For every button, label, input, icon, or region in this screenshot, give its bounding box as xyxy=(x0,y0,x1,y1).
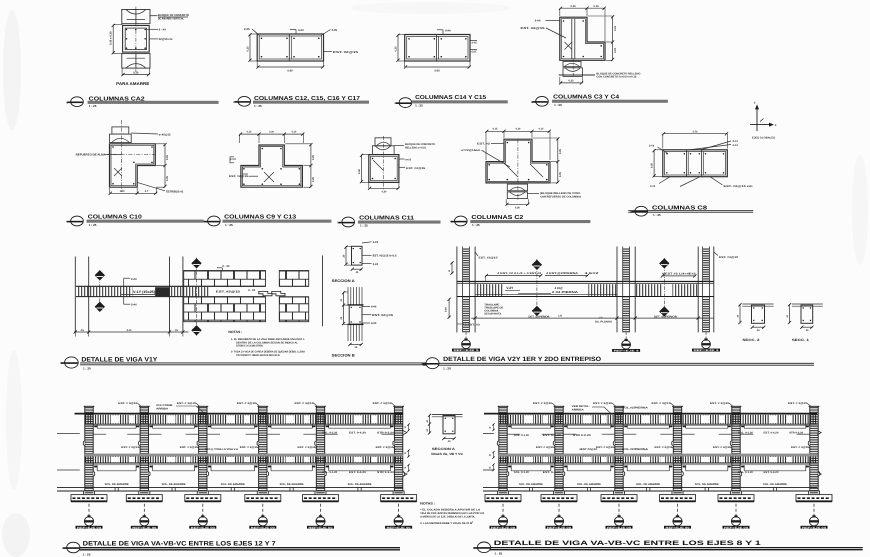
leader 4-#4 top-middle (C12) xyxy=(290,28,304,34)
title COLUMNAS C12 C15 C16 Y C17 xyxy=(234,96,370,108)
svg-text:1 : 25: 1 : 25 xyxy=(495,551,503,555)
svg-text:1.00: 1.00 xyxy=(120,190,125,193)
viga V2Y - left small dimension xyxy=(448,261,454,275)
right frame - stirrup labels above top beam xyxy=(533,402,811,407)
svg-text:PARA AMARRE: PARA AMARRE xyxy=(116,81,149,86)
column C10 L-shaped section xyxy=(105,120,155,192)
svg-text:SOL. DE AMARRE: SOL. DE AMARRE xyxy=(280,483,304,486)
svg-text:STR 9-2.20: STR 9-2.20 xyxy=(573,434,592,437)
svg-text:1 : 25: 1 : 25 xyxy=(254,104,262,108)
right frame - top beam level 1 with stirrups xyxy=(484,414,817,426)
svg-text:SECCION A: SECCION A xyxy=(432,447,456,451)
svg-text:V-2Y: V-2Y xyxy=(506,286,514,290)
svg-text:4 #4@: 4 #4@ xyxy=(555,286,563,290)
leader 2-#5 top-left (C12) xyxy=(244,27,260,36)
svg-text:1 : 25: 1 : 25 xyxy=(89,104,97,108)
svg-text:#2@15 cm: #2@15 cm xyxy=(159,37,173,41)
svg-text:4.10: 4.10 xyxy=(127,329,132,332)
title DETALLE DE VIGA V1Y with scale stamp xyxy=(60,356,437,370)
viga V2Y - column 3 xyxy=(698,247,714,333)
viga V1Y - bottom dimension line xyxy=(74,329,189,337)
svg-text:0.30: 0.30 xyxy=(382,190,387,193)
svg-text:N: N xyxy=(395,102,397,105)
svg-text:0.7: 0.7 xyxy=(145,190,149,193)
block courses below C2 xyxy=(507,184,527,198)
svg-text:REF=EJE 00: REF=EJE 00 xyxy=(387,526,412,529)
svg-text:R: R xyxy=(405,426,407,429)
svg-text:4-#4: 4-#4 xyxy=(733,140,739,143)
svg-text:ARRIBA: ARRIBA xyxy=(156,408,168,411)
leader estribo right (C12) xyxy=(324,50,359,54)
svg-text:REFUERZO DE ALMA: REFUERZO DE ALMA xyxy=(76,154,106,157)
svg-text:e=#2: e=#2 xyxy=(230,158,236,161)
column section detail CA2 - block courses above xyxy=(122,10,150,24)
svg-text:EST.: EST. xyxy=(472,51,478,54)
svg-text:SOL. DE AMARRE: SOL. DE AMARRE xyxy=(348,483,372,486)
svg-text:0.15: 0.15 xyxy=(247,131,252,134)
svg-text:R: R xyxy=(489,426,491,429)
svg-text:EST. #2@15: EST. #2@15 xyxy=(333,50,359,54)
svg-text:EST. # 3@10: EST. # 3@10 xyxy=(533,402,553,405)
svg-text:EST. # 3@15: EST. # 3@15 xyxy=(180,446,199,449)
svg-text:EST. # 3@15: EST. # 3@15 xyxy=(655,446,674,449)
svg-text:0.30: 0.30 xyxy=(133,71,139,74)
svg-text:0.15: 0.15 xyxy=(539,128,544,131)
left frame - stirrup labels above top beam xyxy=(118,402,395,407)
title COLUMNAS C11 xyxy=(337,215,440,227)
leader 4-#4 top (C14) xyxy=(437,28,451,34)
svg-text:R: R xyxy=(489,467,491,470)
svg-text:2-#4: 2-#4 xyxy=(373,241,379,244)
leader note bloque (C3) xyxy=(559,73,641,79)
viga V1Y - bracket leader 2-#4 top and bottom xyxy=(124,277,137,306)
svg-text:1 : 25: 1 : 25 xyxy=(83,552,91,556)
viga V2Y - section diamonds span 2 xyxy=(654,258,677,318)
svg-text:e=#2: e=#2 xyxy=(405,158,411,161)
svg-text:SOL. 9-1.20: SOL. 9-1.20 xyxy=(322,431,338,434)
svg-text:0.60: 0.60 xyxy=(287,69,293,72)
svg-text:0.25: 0.25 xyxy=(166,155,169,160)
viga V1Y - beam label xyxy=(121,290,155,294)
left dimension (C8) xyxy=(650,149,662,178)
svg-text:N: N xyxy=(531,101,533,104)
svg-text:SOL. DE AMARRE: SOL. DE AMARRE xyxy=(221,483,245,486)
svg-text:COLUMNAS C11: COLUMNAS C11 xyxy=(359,215,414,221)
viga V2Y - span dimension line xyxy=(471,315,714,324)
top dimension (C8) xyxy=(662,130,728,148)
svg-text:EST. # 3@15: EST. # 3@15 xyxy=(121,446,140,449)
right frame - column reference bubbles xyxy=(490,504,828,530)
svg-text:STR 9-2.20: STR 9-2.20 xyxy=(377,471,395,474)
svg-text:REF=EJE 00: REF=EJE 00 xyxy=(77,526,102,529)
svg-text:SOL. 9-1.20: SOL. 9-1.20 xyxy=(514,471,530,474)
svg-text:0.30: 0.30 xyxy=(515,206,520,209)
svg-text:N: N xyxy=(422,363,424,366)
block course below C3 xyxy=(563,59,582,78)
svg-text:e=#2@15: e=#2@15 xyxy=(159,133,171,136)
bottom leaders (C8) xyxy=(650,177,754,189)
svg-text:1 : 25: 1 : 25 xyxy=(225,223,233,227)
left dimension (C11) xyxy=(358,154,369,183)
right frame - labels between levels xyxy=(536,446,811,450)
svg-text:e=#2@15cm: e=#2@15cm xyxy=(461,149,481,152)
dimension left of C14 xyxy=(394,34,404,62)
column section detail C8 - wide rectangle three cells xyxy=(663,150,728,177)
svg-text:CON REFUERZO DE COLUMNA): CON REFUERZO DE COLUMNA) xyxy=(540,195,581,198)
svg-text:2-#4: 2-#4 xyxy=(649,144,655,147)
title COLUMNAS C10 xyxy=(66,214,203,226)
svg-text:EST. #3@10: EST. #3@10 xyxy=(719,256,739,259)
svg-text:4-#4: 4-#4 xyxy=(535,19,541,23)
left frame - middle beam level 2 with slab line xyxy=(85,454,403,465)
svg-text:N: N xyxy=(450,221,452,224)
svg-text:DETALLE DE VIGA VA-VB-VC ENTRE: DETALLE DE VIGA VA-VB-VC ENTRE LOS EJES … xyxy=(83,540,277,547)
svg-text:4 EST. #2 A L/4 + 4 EST.#2: 4 EST. #2 A L/4 + 4 EST.#2 xyxy=(497,272,542,275)
svg-text:NOTAS :: NOTAS : xyxy=(420,502,435,506)
svg-text:DETALLE DE VIGA VA-VB-VC ENTRE: DETALLE DE VIGA VA-VB-VC ENTRE LOS EJES … xyxy=(494,540,762,547)
svg-text:STR 9-2.20: STR 9-2.20 xyxy=(789,431,804,434)
svg-text:EST. # 3@10: EST. # 3@10 xyxy=(652,402,672,405)
viga V2Y - column 2 xyxy=(617,247,635,333)
bottom dimension (C2) xyxy=(505,199,529,209)
svg-text:4 E#2: 4 E#2 xyxy=(585,272,600,275)
svg-text:EST. #2@15: EST. #2@15 xyxy=(406,167,426,170)
svg-text:4 - #4: 4 - #4 xyxy=(159,28,167,32)
left frame - broken-edge marks xyxy=(57,431,407,477)
svg-text:EJES GLOBALES: EJES GLOBALES xyxy=(752,137,775,140)
svg-text:4-#4: 4-#4 xyxy=(298,28,304,32)
svg-text:EST. 9-4.20: EST. 9-4.20 xyxy=(349,471,367,474)
svg-text:4-#4: 4-#4 xyxy=(371,322,377,325)
svg-text:V-1Y (15x25): V-1Y (15x25) xyxy=(133,290,155,294)
right dimension (C3) xyxy=(588,15,617,61)
svg-text:0.20: 0.20 xyxy=(614,47,617,53)
svg-text:SOL. DE AMARRE: SOL. DE AMARRE xyxy=(162,483,186,486)
svg-text:EST. #2@15: EST. #2@15 xyxy=(216,290,241,294)
viga V1Y - second column xyxy=(170,257,183,333)
svg-text:NOTAS :: NOTAS : xyxy=(228,330,242,334)
title COLUMNAS C14 Y C15 xyxy=(395,95,508,107)
svg-text:0.25: 0.25 xyxy=(559,149,562,154)
svg-text:0.30: 0.30 xyxy=(516,128,521,131)
svg-text:0.70: 0.70 xyxy=(693,130,698,133)
dimension line below CA2 xyxy=(121,69,150,77)
right frame - bar cutoff lines below level 1 xyxy=(507,425,810,435)
title COLUMNAS C9 Y C13 xyxy=(203,214,331,226)
svg-text:0.25: 0.25 xyxy=(312,177,315,182)
svg-text:N: N xyxy=(66,221,68,224)
viga V2Y - column 1 top leader xyxy=(475,252,498,259)
left leaders (C3) xyxy=(521,19,567,38)
svg-text:SOL. 9-1.20: SOL. 9-1.20 xyxy=(514,434,530,437)
svg-text:EST. #2@15 A=0.5: EST. #2@15 A=0.5 xyxy=(373,254,398,257)
svg-text:1 : 25: 1 : 25 xyxy=(89,223,97,227)
svg-text:REF=EJE 00: REF=EJE 00 xyxy=(607,526,632,529)
svg-text:SOL. 9-1.20: SOL. 9-1.20 xyxy=(738,471,754,474)
bottom dimension (C10) xyxy=(109,188,158,195)
viga V1Y - section mark diamonds at wall xyxy=(192,258,201,337)
svg-text:A MENOS DE LO EJE. DEBAJO DE L: A MENOS DE LO EJE. DEBAJO DE LA JUNTA. xyxy=(420,516,475,519)
svg-text:0.25: 0.25 xyxy=(570,5,576,8)
svg-text:CON CONCRETO Y VIBRADA SEGUN S: CON CONCRETO Y VIBRADA SEGUN SE INDICA E… xyxy=(236,354,280,357)
svg-text:0.25: 0.25 xyxy=(650,163,653,168)
svg-text:1 : 25: 1 : 25 xyxy=(653,213,661,217)
svg-text:2: 2 xyxy=(472,520,473,523)
title DETALLE DE VIGA VA-VB-VC ENTRE LOS EJES 8 Y 1 xyxy=(473,540,863,555)
svg-text:REF=EJE 00: REF=EJE 00 xyxy=(191,526,216,529)
left frame - footings xyxy=(71,491,417,501)
svg-text:EST. # 3@15: EST. # 3@15 xyxy=(376,446,395,449)
svg-text:SOL. DE AMARRE: SOL. DE AMARRE xyxy=(105,483,129,486)
svg-text:N: N xyxy=(473,547,475,550)
svg-text:2-#4: 2-#4 xyxy=(131,277,137,281)
svg-text:0.30 x 0.30: 0.30 x 0.30 xyxy=(110,31,113,45)
svg-text:SECC. 2: SECC. 2 xyxy=(742,338,759,342)
beam section A - vigas VA VB VC xyxy=(426,414,464,456)
left frame - bar cutoff lines below level 1 xyxy=(93,425,394,435)
viga V2Y - column reference bubbles xyxy=(452,332,720,352)
right frame - left edge depth marks xyxy=(489,423,495,471)
bottom dimension (C3) xyxy=(559,77,583,85)
svg-text:1 : 20: 1 : 20 xyxy=(83,367,91,371)
svg-text:ESTRIBOS #2: ESTRIBOS #2 xyxy=(166,191,183,194)
right frame - bay labels at tie beam xyxy=(519,483,787,486)
svg-text:SOL. DE AMARRE: SOL. DE AMARRE xyxy=(577,483,601,486)
svg-text:EST. # 3@10: EST. # 3@10 xyxy=(710,402,730,405)
svg-text:0.25: 0.25 xyxy=(312,155,315,160)
svg-text:2- LAS UNIONES DEBE Y VIGAS DE: 2- LAS UNIONES DEBE Y VIGAS DE 20 M xyxy=(420,522,472,525)
svg-text:REF=EJE 5: REF=EJE 5 xyxy=(454,349,480,352)
title DETALLE DE VIGA VA-VB-VC ENTRE LOS EJES 12 Y 7 xyxy=(62,540,400,556)
svg-text:0.25: 0.25 xyxy=(246,46,249,52)
svg-text:0.40: 0.40 xyxy=(358,169,361,174)
svg-text:1 : 25: 1 : 25 xyxy=(415,104,423,108)
svg-text:2-#5: 2-#5 xyxy=(332,28,338,32)
svg-text:L/3: L/3 xyxy=(558,315,562,318)
column section detail C12 C15 C16 C17 - rectangle with two cells xyxy=(257,34,323,61)
svg-text:EST. # 3@10: EST. # 3@10 xyxy=(593,402,613,405)
left leader refuerzo (C10) xyxy=(76,154,122,157)
svg-text:SOL. 9-1.20: SOL. 9-1.20 xyxy=(322,471,338,474)
svg-text:REF=EJE 00: REF=EJE 00 xyxy=(724,526,749,529)
viga V2Y - beam labels xyxy=(505,286,563,290)
top dimension (C9) xyxy=(239,131,305,144)
viga V2Y - section diamonds span 1 xyxy=(529,259,550,318)
column section detail C9 C13 - T shape xyxy=(241,145,303,187)
svg-text:EXTREMO DE LA COLUMNA EXTREMA: EXTREMO DE LA COLUMNA EXTREMA xyxy=(236,345,263,348)
svg-text:N: N xyxy=(234,101,236,104)
svg-text:SOL. DE AMARRE: SOL. DE AMARRE xyxy=(695,483,719,486)
svg-text:RELLENO e=0.15: RELLENO e=0.15 xyxy=(405,146,427,149)
right frame - columns with hoop hatch xyxy=(497,406,819,494)
svg-text:N: N xyxy=(203,221,205,224)
svg-text:.15: .15 xyxy=(174,329,178,332)
right dimension (C10) xyxy=(156,143,169,188)
svg-text:2-#4: 2-#4 xyxy=(131,302,137,306)
viga V2Y - leader 2 EST xyxy=(457,323,480,326)
svg-text:4-#4: 4-#4 xyxy=(371,306,377,309)
viga V1Y - left column xyxy=(75,257,88,333)
right frame - broken-edge marks xyxy=(483,431,821,477)
svg-text:2-#4: 2-#4 xyxy=(650,185,656,188)
left frame - extra bay labels under level 1 xyxy=(205,431,395,474)
svg-text:SOL.#2/PIERNA: SOL.#2/PIERNA xyxy=(622,407,648,410)
column section detail C2 - cross/T shape xyxy=(486,139,550,200)
svg-text:EST. # 3@10: EST. # 3@10 xyxy=(118,402,138,405)
svg-text:0.15: 0.15 xyxy=(493,128,498,131)
right frame - bar cutoff lines below level 2 xyxy=(508,465,809,471)
svg-text:EST. # 3@10: EST. # 3@10 xyxy=(177,402,197,405)
svg-text:REF=EJE 00: REF=EJE 00 xyxy=(309,526,334,529)
top dimension (C2) xyxy=(485,128,551,160)
svg-text:EST. # 3@10: EST. # 3@10 xyxy=(788,402,808,405)
svg-text:ARRIBA: ARRIBA xyxy=(572,409,584,412)
svg-text:EST. # 3@10: EST. # 3@10 xyxy=(373,402,393,405)
left leaders (C9) xyxy=(229,157,258,178)
view boundary line xyxy=(322,256,324,327)
viga V2Y - column 3 top leader xyxy=(714,252,739,259)
svg-text:EST. # 3@15: EST. # 3@15 xyxy=(240,446,259,449)
title COLUMNAS C2 xyxy=(450,215,590,227)
svg-text:EST. #3@10: EST. #3@10 xyxy=(479,256,499,259)
left frame - note 2#4 corrido xyxy=(156,404,206,414)
svg-text:SOL. 9-1.20: SOL. 9-1.20 xyxy=(738,431,754,434)
notes block (middle) xyxy=(228,330,305,357)
svg-text:N: N xyxy=(60,362,62,365)
top dimension (C3) xyxy=(559,5,606,41)
top right leaders (C8) xyxy=(688,140,738,150)
svg-text:2-#5: 2-#5 xyxy=(472,42,478,45)
svg-text:EST. 9-4.20: EST. 9-4.20 xyxy=(543,434,562,437)
viga V2Y - top stirrup dimensions span 1 xyxy=(485,272,600,281)
dimension below C12 xyxy=(256,62,324,73)
svg-text:EST. 9-4.20: EST. 9-4.20 xyxy=(349,431,367,434)
right dimension (C9) xyxy=(285,143,315,188)
svg-text:4-#4: 4-#4 xyxy=(445,28,451,32)
svg-text:SOL. DE AMARRE: SOL. DE AMARRE xyxy=(763,483,787,486)
masonry wall joint connectors xyxy=(259,291,285,295)
svg-text:2 EST. #3: 2 EST. #3 xyxy=(465,323,481,326)
svg-text:COLUMNAS C14 Y C15: COLUMNAS C14 Y C15 xyxy=(415,95,486,101)
beam section SECC 1 xyxy=(786,303,823,342)
svg-text:EST. #2: EST. #2 xyxy=(477,142,491,145)
svg-text:N: N xyxy=(62,547,64,550)
svg-text:0.60: 0.60 xyxy=(445,307,448,312)
viga V2Y - top stirrup dimension span 2 xyxy=(661,273,697,278)
svg-text:2-#5: 2-#5 xyxy=(244,27,250,31)
svg-text:COLUMNAS C10: COLUMNAS C10 xyxy=(88,214,142,220)
right frame - ground tie beam (solera) xyxy=(483,487,817,491)
svg-text:0.25: 0.25 xyxy=(559,172,562,177)
svg-text:4 EST #2 L/4+4E#2: 4 EST #2 L/4+4E#2 xyxy=(662,273,697,276)
column section detail C3 C4 - L shape xyxy=(560,17,605,60)
viga V1Y - leader inside beam xyxy=(216,288,256,294)
section B detail xyxy=(340,287,394,349)
svg-text:EST. # 3@15: EST. # 3@15 xyxy=(298,446,317,449)
svg-text:4 - #4: 4 - #4 xyxy=(248,288,256,292)
svg-text:REF=EJE 00: REF=EJE 00 xyxy=(802,526,827,529)
svg-text:.15: .15 xyxy=(80,329,84,332)
viga V2Y - column 1 xyxy=(457,247,475,333)
svg-text:R: R xyxy=(405,452,407,455)
right dimension (C2) xyxy=(533,137,562,184)
svg-text:N: N xyxy=(337,222,339,225)
beam section SECC 2 xyxy=(736,303,773,342)
viga V1Y - section mark diamonds near left column xyxy=(95,270,104,312)
svg-text:0.15: 0.15 xyxy=(593,5,599,8)
right frame - middle beam level 2 with slab line xyxy=(499,454,817,465)
svg-text:EST. 9-4.20: EST. 9-4.20 xyxy=(764,431,780,434)
leader note bloque relleno (C2) xyxy=(528,192,582,198)
svg-text:SECC. 1: SECC. 1 xyxy=(792,338,809,342)
leaders right side (C14) xyxy=(470,41,477,54)
leader note - bloque de concreto (CA2) xyxy=(150,13,190,20)
svg-text:0.25: 0.25 xyxy=(568,80,574,83)
svg-text:EST. #2@15 cm: EST. #2@15 cm xyxy=(724,185,754,188)
right frame - ver detalle note xyxy=(572,405,648,414)
viga V2Y - leader 2 #4 pierna xyxy=(518,291,578,294)
svg-text:0.15: 0.15 xyxy=(292,131,297,134)
svg-text:EST. # 3@10: EST. # 3@10 xyxy=(237,402,257,405)
section A detail xyxy=(343,241,398,274)
column section detail C10 - block courses above xyxy=(110,127,132,143)
svg-text:2 - #4: 2 - #4 xyxy=(222,264,230,268)
left frame - top beam level 1 with stirrups xyxy=(75,414,403,426)
svg-text:1 : 25: 1 : 25 xyxy=(360,224,368,228)
svg-text:EST. #2@15: EST. #2@15 xyxy=(521,26,546,30)
left leaders (C2) xyxy=(461,142,510,167)
left frame - bar cutoff lines below level 2 xyxy=(94,465,393,471)
leader 2-#5 top-right (C12) xyxy=(321,28,338,36)
svg-text:EST. # 3@15: EST. # 3@15 xyxy=(536,446,555,449)
viga V1Y - beam with stirrups xyxy=(76,286,266,296)
svg-text:EST. # 3@15: EST. # 3@15 xyxy=(713,446,732,449)
svg-text:DETALLE DE VIGA V1Y: DETALLE DE VIGA V1Y xyxy=(81,356,158,363)
bottom dimension (C11) xyxy=(368,183,400,193)
svg-text:1 : 25: 1 : 25 xyxy=(554,103,562,107)
left frame - bay labels at tie beam xyxy=(105,483,372,486)
left frame - right edge depth marks xyxy=(405,423,410,472)
svg-text:0.30: 0.30 xyxy=(269,131,274,134)
right frame - extra bay labels under level 1 xyxy=(514,431,804,474)
svg-text:REF=EJE 00: REF=EJE 00 xyxy=(251,526,276,529)
svg-text:L/3: L/3 xyxy=(599,316,603,319)
svg-text:SOL.#2/PIERNA: SOL.#2/PIERNA xyxy=(622,448,648,451)
svg-text:SG. PLANOS: SG. PLANOS xyxy=(595,320,612,323)
svg-text:EST. 9-4.20: EST. 9-4.20 xyxy=(543,471,562,474)
title COLUMNAS C3 Y C4 xyxy=(531,95,668,107)
left frame - labels between levels xyxy=(121,446,395,450)
svg-text:SECCION A: SECCION A xyxy=(332,279,355,283)
svg-text:REF=EJE 4: REF=EJE 4 xyxy=(614,350,640,353)
svg-text:DETALLE DE VIGA V2Y 1ER Y 2DO: DETALLE DE VIGA V2Y 1ER Y 2DO ENTREPISO xyxy=(443,356,601,363)
masonry wall panel 1 xyxy=(184,271,266,322)
viga V2Y - beam span 1 and 2 xyxy=(457,282,714,297)
svg-text:EST. # 3@15: EST. # 3@15 xyxy=(596,446,615,449)
leader estribos #2@15 (CA2) xyxy=(150,38,159,40)
svg-text:REF=EJE 00: REF=EJE 00 xyxy=(666,526,691,529)
column section detail C14 C15 - rectangle with two cells xyxy=(405,35,470,62)
viga V2Y - traslape note xyxy=(484,303,503,315)
svg-text:REF=EJE 00: REF=EJE 00 xyxy=(491,526,516,529)
svg-text:0.60: 0.60 xyxy=(434,69,440,72)
svg-text:SOL. DE AMARRE: SOL. DE AMARRE xyxy=(636,483,660,486)
svg-text:REF=EJE 00: REF=EJE 00 xyxy=(547,526,572,529)
masonry wall panel 2 xyxy=(279,271,308,322)
left frame - ground tie beam (solera) xyxy=(57,487,403,491)
global axes symbol xyxy=(750,101,777,140)
column CA2 block courses below xyxy=(122,54,150,69)
